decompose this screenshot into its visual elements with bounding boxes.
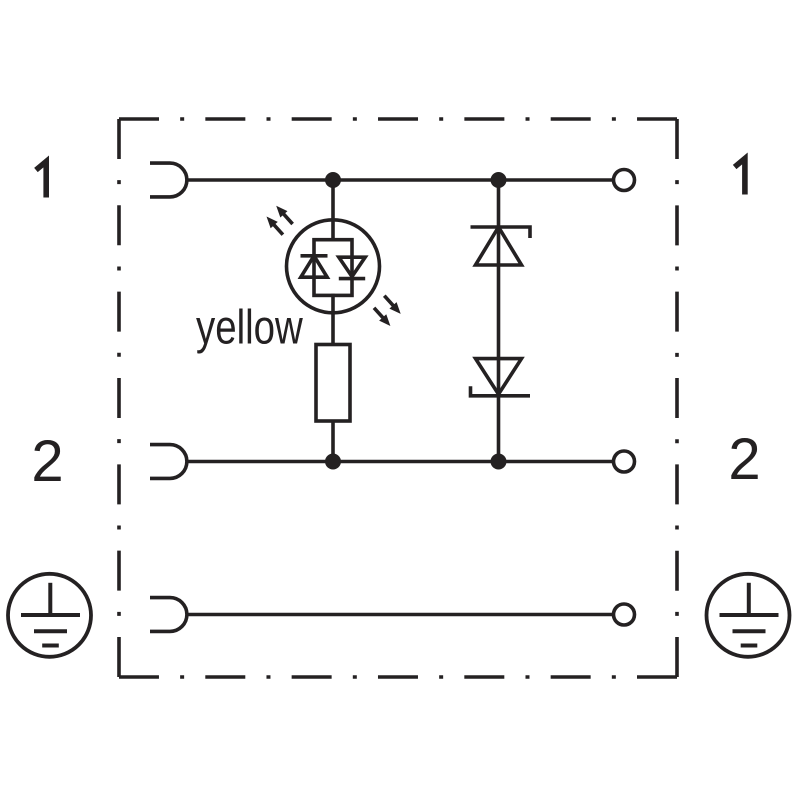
LED D1 yellow (bipolar, two anti-parallel diodes in circle) xyxy=(287,220,380,313)
LED light emission arrow lower-right B xyxy=(370,305,394,330)
pin number 1 (left) xyxy=(36,162,46,198)
pin number 1 (right) xyxy=(735,159,745,195)
junction node row1 / LED branch xyxy=(325,172,341,188)
junction node row2 / suppressor branch xyxy=(491,454,507,470)
svg-text:2: 2 xyxy=(728,427,760,492)
wire pin 1 row xyxy=(187,178,614,182)
wire LED branch upper xyxy=(331,180,335,242)
suppressor diode Z2 (lower zener) xyxy=(471,359,531,396)
enclosure outline (connector housing, dash-dot border) xyxy=(119,119,677,677)
terminal circle PE (right) xyxy=(614,604,635,625)
pin 1 socket contact (left) xyxy=(150,163,187,197)
LED light emission arrow lower-right A xyxy=(381,292,405,317)
protective earth symbol (left) xyxy=(8,574,91,657)
wire resistor to node row 2 xyxy=(331,420,335,462)
LED light emission arrow upper-left A xyxy=(273,203,297,228)
PE socket contact (left) xyxy=(150,598,187,632)
terminal circle pin 1 (right) xyxy=(614,170,635,191)
junction node row1 / suppressor branch xyxy=(491,172,507,188)
wire LED branch to resistor xyxy=(331,294,335,346)
svg-text:2: 2 xyxy=(31,429,63,494)
resistor R1 xyxy=(316,345,350,422)
suppressor diode Z1 (upper zener) xyxy=(471,227,531,265)
wire suppressor branch xyxy=(497,180,501,462)
junction node row2 / LED branch xyxy=(325,454,341,470)
wire PE row xyxy=(187,613,614,617)
wire pin 2 row xyxy=(187,460,614,464)
protective earth symbol (right) xyxy=(707,574,790,657)
svg-text:yellow: yellow xyxy=(196,302,303,355)
terminal circle pin 2 (right) xyxy=(614,451,635,472)
LED light emission arrow upper-left B xyxy=(263,213,287,238)
pin 2 socket contact (left) xyxy=(150,445,187,479)
